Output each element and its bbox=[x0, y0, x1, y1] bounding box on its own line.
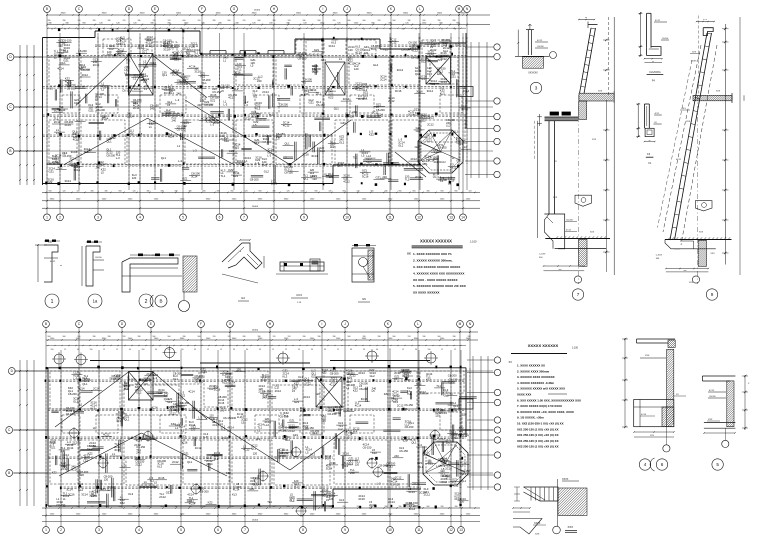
svg-text:8: 8 bbox=[302, 528, 304, 532]
svg-text:C6-150: C6-150 bbox=[391, 483, 400, 487]
svg-text:12: 12 bbox=[103, 349, 105, 351]
svg-text:LL2: LL2 bbox=[179, 53, 184, 57]
svg-text:4C12: 4C12 bbox=[676, 159, 682, 161]
svg-text:2C12: 2C12 bbox=[177, 82, 184, 86]
svg-text:F: F bbox=[201, 7, 203, 11]
svg-text:C8-200: C8-200 bbox=[127, 377, 136, 381]
svg-text:4C12: 4C12 bbox=[445, 476, 452, 480]
svg-text:L1: L1 bbox=[440, 179, 443, 183]
column sections top plan bbox=[58, 28, 60, 31]
svg-text:L5: L5 bbox=[250, 64, 253, 68]
svg-text:TL1: TL1 bbox=[431, 82, 436, 86]
svg-text:2C14: 2C14 bbox=[127, 115, 134, 119]
svg-text:4C14: 4C14 bbox=[168, 135, 175, 139]
svg-text:11: 11 bbox=[417, 528, 421, 532]
svg-text:C8-200: C8-200 bbox=[376, 108, 385, 112]
svg-text:330: 330 bbox=[343, 506, 346, 508]
svg-text:4C14: 4C14 bbox=[78, 387, 85, 391]
svg-text:90: 90 bbox=[220, 28, 222, 30]
svg-text:TL1: TL1 bbox=[290, 499, 295, 503]
svg-text:3C16: 3C16 bbox=[358, 497, 365, 501]
svg-text:LL2: LL2 bbox=[446, 124, 451, 128]
svg-text:C8-200: C8-200 bbox=[78, 49, 87, 53]
svg-text:TL1: TL1 bbox=[126, 58, 131, 62]
detail 1 corbel section bbox=[35, 240, 62, 283]
svg-text:3C14: 3C14 bbox=[303, 395, 310, 399]
svg-text:2C14: 2C14 bbox=[189, 423, 196, 427]
svg-text:XX2 250-120 (1 XX) +XX (X) XX: XX2 250-120 (1 XX) +XX (X) XX bbox=[517, 445, 559, 449]
svg-text:KL3: KL3 bbox=[232, 492, 237, 496]
svg-text:120: 120 bbox=[321, 419, 326, 423]
svg-text:TL1: TL1 bbox=[149, 479, 154, 483]
svg-text:3C16: 3C16 bbox=[181, 440, 188, 444]
svg-text:2C12: 2C12 bbox=[430, 48, 437, 52]
svg-text:QL1: QL1 bbox=[162, 73, 168, 77]
stair X brace 3 bbox=[426, 57, 451, 85]
svg-text:900: 900 bbox=[427, 506, 430, 508]
svg-text:4C12: 4C12 bbox=[441, 41, 448, 45]
svg-text:3C14: 3C14 bbox=[89, 494, 96, 498]
svg-text:2C12: 2C12 bbox=[172, 73, 179, 77]
svg-text:900: 900 bbox=[258, 20, 261, 22]
svg-text:L1: L1 bbox=[135, 388, 138, 392]
svg-text:4C12: 4C12 bbox=[65, 79, 72, 83]
svg-text:3C14: 3C14 bbox=[133, 106, 140, 110]
svg-text:GZ1: GZ1 bbox=[120, 41, 126, 45]
svg-text:XXXX: XXXX bbox=[534, 522, 541, 525]
svg-text:120: 120 bbox=[469, 190, 472, 192]
svg-text:XXXXX XXXXXX: XXXXX XXXXXX bbox=[420, 239, 452, 244]
svg-text:120: 120 bbox=[191, 407, 196, 411]
svg-text:4C12: 4C12 bbox=[537, 40, 543, 42]
svg-text:4C14: 4C14 bbox=[408, 490, 415, 494]
svg-text:XXX: XXX bbox=[645, 355, 650, 357]
svg-text:L5: L5 bbox=[54, 56, 57, 60]
svg-text:240: 240 bbox=[304, 92, 309, 96]
section 9 footing hatch bbox=[698, 240, 706, 266]
svg-text:4C14: 4C14 bbox=[57, 66, 64, 70]
svg-text:L-3: L-3 bbox=[255, 161, 259, 165]
svg-text:GZ1: GZ1 bbox=[341, 121, 347, 125]
svg-text:QL1: QL1 bbox=[354, 85, 360, 89]
svg-text:QL1: QL1 bbox=[461, 472, 467, 476]
svg-text:13: 13 bbox=[459, 528, 463, 532]
svg-text:7: 7 bbox=[244, 528, 246, 532]
detail 3 leader circle bbox=[550, 52, 557, 59]
svg-text:4C12: 4C12 bbox=[195, 446, 202, 450]
svg-text:C8-200: C8-200 bbox=[662, 38, 668, 40]
svg-text:GZ1: GZ1 bbox=[293, 433, 299, 437]
svg-text:L-3: L-3 bbox=[294, 384, 298, 388]
detail CC3 beam plan bbox=[276, 259, 328, 304]
svg-text:QL1: QL1 bbox=[285, 141, 291, 145]
svg-text:GZ1: GZ1 bbox=[50, 446, 56, 450]
svg-text:330: 330 bbox=[441, 506, 444, 508]
svg-text:XX: XX bbox=[509, 360, 513, 364]
svg-text:3. XXXXXX XXXX XXXXXXX: 3. XXXXXX XXXX XXXXXXX bbox=[517, 375, 555, 379]
svg-text:GZ1: GZ1 bbox=[309, 101, 315, 105]
svg-text:C8-200: C8-200 bbox=[96, 108, 105, 112]
svg-text:L-3: L-3 bbox=[346, 435, 350, 439]
svg-text:XXX: XXX bbox=[598, 91, 603, 93]
svg-text:L1: L1 bbox=[144, 480, 147, 484]
svg-text:90: 90 bbox=[64, 28, 66, 30]
bottom plan left axis bubbles bbox=[8, 368, 15, 375]
annotation text clusters top plan bbox=[47, 35, 472, 185]
left axis bubbles and lines bbox=[7, 54, 14, 61]
svg-text:GZ1: GZ1 bbox=[182, 177, 188, 181]
svg-text:90: 90 bbox=[129, 28, 131, 30]
svg-text:C6-150: C6-150 bbox=[363, 446, 372, 450]
svg-text:2C12: 2C12 bbox=[146, 43, 153, 47]
svg-text:2C14: 2C14 bbox=[222, 436, 229, 440]
svg-text:330: 330 bbox=[408, 20, 411, 22]
svg-text:L-3: L-3 bbox=[223, 103, 227, 107]
svg-text:GZ1: GZ1 bbox=[347, 376, 353, 380]
svg-text:7: 7 bbox=[577, 292, 580, 297]
svg-text:QL1: QL1 bbox=[187, 460, 193, 464]
svg-text:L5: L5 bbox=[136, 456, 139, 460]
svg-text:3300: 3300 bbox=[140, 13, 146, 15]
svg-text:L1: L1 bbox=[175, 426, 178, 430]
svg-text:12: 12 bbox=[207, 349, 209, 351]
svg-text:LL2: LL2 bbox=[237, 415, 242, 419]
svg-text:4C14: 4C14 bbox=[462, 107, 469, 111]
svg-text:4C14: 4C14 bbox=[641, 414, 647, 416]
svg-text:L1: L1 bbox=[257, 428, 260, 432]
svg-text:1: 1 bbox=[51, 299, 54, 305]
svg-text:33: 33 bbox=[324, 349, 326, 351]
svg-text:120: 120 bbox=[378, 20, 381, 22]
svg-text:2C12: 2C12 bbox=[186, 54, 193, 58]
svg-text:L5: L5 bbox=[70, 159, 73, 163]
svg-text:9: 9 bbox=[344, 528, 346, 532]
svg-text:4C12: 4C12 bbox=[419, 390, 426, 394]
svg-text:330: 330 bbox=[161, 190, 164, 192]
stair pit plan detail bbox=[512, 478, 587, 536]
svg-text:330: 330 bbox=[333, 336, 336, 338]
svg-text:12: 12 bbox=[454, 349, 456, 351]
section 9 footing boot bbox=[665, 240, 680, 249]
svg-text:330: 330 bbox=[385, 190, 388, 192]
svg-text:2C14: 2C14 bbox=[440, 411, 447, 415]
svg-text:330: 330 bbox=[243, 336, 246, 338]
svg-text:4C14: 4C14 bbox=[188, 390, 195, 394]
svg-text:120: 120 bbox=[446, 441, 451, 445]
detail 5 wall section bbox=[702, 375, 750, 434]
detail 1a section bbox=[82, 241, 104, 287]
detail G3 diagonal bracket bbox=[222, 239, 264, 301]
bottom building outline bbox=[48, 367, 466, 369]
svg-text:330: 330 bbox=[138, 336, 141, 338]
svg-text:3C14: 3C14 bbox=[250, 482, 257, 486]
svg-text:7: 7 bbox=[243, 216, 245, 220]
svg-text:120: 120 bbox=[329, 497, 334, 501]
roof ridge diagonals bbox=[76, 56, 129, 106]
svg-text:GZ1: GZ1 bbox=[376, 175, 382, 179]
svg-text:GZ1: GZ1 bbox=[210, 99, 216, 103]
svg-text:C8-200: C8-200 bbox=[279, 103, 288, 107]
svg-text:240: 240 bbox=[150, 106, 155, 110]
svg-text:330: 330 bbox=[453, 336, 456, 338]
svg-text:90: 90 bbox=[129, 349, 131, 351]
svg-text:E: E bbox=[154, 7, 156, 11]
section 9 vertical reference lines bbox=[697, 95, 699, 284]
svg-text:QL1: QL1 bbox=[418, 465, 424, 469]
svg-text:3: 3 bbox=[535, 86, 538, 91]
svg-text:E: E bbox=[150, 322, 152, 326]
section 7 landing left edge verticals bbox=[537, 121, 539, 238]
svg-text:3C16: 3C16 bbox=[163, 48, 170, 52]
svg-text:900: 900 bbox=[63, 336, 66, 338]
svg-text:2. XXXXX XXXXXX 300mm,: 2. XXXXX XXXXXX 300mm, bbox=[413, 259, 453, 263]
svg-text:GZ1: GZ1 bbox=[183, 452, 189, 456]
svg-text:150: 150 bbox=[142, 28, 145, 30]
svg-text:3C16: 3C16 bbox=[416, 89, 423, 93]
svg-text:L1: L1 bbox=[339, 57, 342, 61]
svg-text:LL2: LL2 bbox=[258, 74, 263, 78]
svg-text:90: 90 bbox=[415, 28, 417, 30]
svg-text:240: 240 bbox=[197, 103, 202, 107]
svg-text:900: 900 bbox=[48, 336, 51, 338]
svg-text:6: 6 bbox=[219, 216, 221, 220]
svg-text:GZ1: GZ1 bbox=[449, 381, 455, 385]
svg-text:3C16: 3C16 bbox=[362, 174, 369, 178]
svg-text:33: 33 bbox=[311, 349, 313, 351]
svg-text:330: 330 bbox=[217, 190, 220, 192]
svg-text:C6-150: C6-150 bbox=[284, 171, 293, 175]
svg-text:900: 900 bbox=[399, 190, 402, 192]
svg-text:KZ2: KZ2 bbox=[208, 501, 213, 505]
svg-text:KL3: KL3 bbox=[348, 462, 353, 466]
svg-text:2C14: 2C14 bbox=[419, 490, 426, 494]
svg-text:B: B bbox=[9, 149, 11, 153]
svg-text:10: 10 bbox=[388, 528, 392, 532]
svg-text:L5: L5 bbox=[394, 377, 397, 381]
svg-text:330: 330 bbox=[423, 336, 426, 338]
stair detail leader circle bbox=[553, 526, 561, 534]
svg-text:GL2: GL2 bbox=[421, 60, 427, 64]
svg-text:3300: 3300 bbox=[437, 13, 443, 15]
svg-text:GL2: GL2 bbox=[427, 41, 433, 45]
detail 3 parapet section bbox=[515, 24, 557, 75]
svg-text:11: 11 bbox=[388, 216, 392, 220]
svg-text:L-3: L-3 bbox=[267, 153, 271, 157]
svg-text:L5: L5 bbox=[282, 454, 285, 458]
svg-text:3: 3 bbox=[97, 216, 99, 220]
detail 3 footing hatch bbox=[523, 57, 544, 68]
svg-text:2C14 L=3300: 2C14 L=3300 bbox=[143, 255, 157, 257]
svg-text:2C14: 2C14 bbox=[169, 408, 176, 412]
svg-text:330: 330 bbox=[93, 336, 96, 338]
svg-text:120: 120 bbox=[333, 20, 336, 22]
svg-text:330: 330 bbox=[453, 20, 456, 22]
svg-text:3C16: 3C16 bbox=[71, 150, 78, 154]
svg-text:KL3: KL3 bbox=[48, 86, 53, 90]
svg-text:12: 12 bbox=[116, 349, 118, 351]
svg-text:2C14: 2C14 bbox=[392, 393, 399, 397]
svg-text:XXX: XXX bbox=[689, 282, 694, 284]
bottom interior walls dashed bbox=[48, 379, 466, 381]
svg-text:KL3: KL3 bbox=[343, 464, 348, 468]
top dimension lines bbox=[47, 14, 490, 16]
svg-text:L1: L1 bbox=[223, 59, 226, 63]
svg-text:3C16: 3C16 bbox=[59, 54, 66, 58]
svg-text:GZ1: GZ1 bbox=[49, 170, 55, 174]
svg-text:120: 120 bbox=[236, 485, 241, 489]
svg-text:120: 120 bbox=[243, 20, 246, 22]
svg-text:900: 900 bbox=[438, 336, 441, 338]
svg-text:3300: 3300 bbox=[367, 13, 373, 15]
svg-text:4C12: 4C12 bbox=[228, 96, 235, 100]
svg-text:33: 33 bbox=[194, 349, 196, 351]
svg-text:GL2: GL2 bbox=[416, 129, 422, 133]
svg-text:XXX: XXX bbox=[692, 52, 697, 54]
svg-text:3300: 3300 bbox=[252, 13, 258, 15]
svg-text:330: 330 bbox=[385, 506, 388, 508]
svg-text:240: 240 bbox=[163, 44, 168, 48]
svg-text:120: 120 bbox=[63, 190, 66, 192]
svg-text:2C14: 2C14 bbox=[93, 387, 100, 391]
svg-text:L-3: L-3 bbox=[116, 156, 120, 160]
svg-text:2C14: 2C14 bbox=[462, 434, 469, 438]
svg-text:QL1: QL1 bbox=[251, 447, 257, 451]
svg-text:L5: L5 bbox=[344, 430, 347, 434]
svg-text:KL3: KL3 bbox=[262, 163, 267, 167]
svg-text:3C16: 3C16 bbox=[302, 152, 309, 156]
svg-text:2C14: 2C14 bbox=[137, 46, 144, 50]
svg-text:240: 240 bbox=[350, 471, 355, 475]
svg-text:XXXXXX: XXXXXX bbox=[528, 72, 538, 75]
svg-text:240: 240 bbox=[369, 457, 374, 461]
svg-text:90: 90 bbox=[246, 349, 248, 351]
svg-text:LL2: LL2 bbox=[265, 423, 270, 427]
svg-text:C8-200: C8-200 bbox=[204, 103, 213, 107]
svg-text:14: 14 bbox=[461, 216, 465, 220]
svg-text:240: 240 bbox=[129, 132, 134, 136]
svg-text:330: 330 bbox=[258, 336, 261, 338]
svg-text:3C16: 3C16 bbox=[395, 89, 402, 93]
svg-text:120: 120 bbox=[288, 20, 291, 22]
section 7 footing hatch bbox=[579, 240, 587, 267]
svg-text:4C12: 4C12 bbox=[439, 437, 446, 441]
svg-text:900: 900 bbox=[119, 190, 122, 192]
svg-text:KZ2: KZ2 bbox=[353, 388, 358, 392]
svg-text:QL1: QL1 bbox=[453, 129, 459, 133]
svg-text:KL3: KL3 bbox=[256, 107, 261, 111]
svg-text:B: B bbox=[45, 322, 47, 326]
svg-text:4C12: 4C12 bbox=[655, 20, 661, 22]
section 7 bottom dims bbox=[544, 265, 585, 267]
section 9 leader circle bbox=[692, 276, 699, 283]
svg-text:L-3: L-3 bbox=[175, 98, 179, 102]
svg-text:120: 120 bbox=[355, 462, 360, 466]
svg-text:XX1 250-120 (1 XX) +XX (X) XX: XX1 250-120 (1 XX) +XX (X) XX bbox=[517, 433, 559, 437]
svg-text:150: 150 bbox=[168, 349, 171, 351]
svg-text:XXXXX XXXXXX: XXXXX XXXXXX bbox=[528, 343, 559, 348]
svg-text:TL1: TL1 bbox=[448, 392, 453, 396]
svg-text:QL1: QL1 bbox=[415, 72, 421, 76]
svg-text:2C14: 2C14 bbox=[345, 408, 352, 412]
svg-text:QL1: QL1 bbox=[411, 441, 417, 445]
svg-text:LL2: LL2 bbox=[214, 457, 219, 461]
svg-text:12: 12 bbox=[51, 28, 53, 30]
svg-text:3C14: 3C14 bbox=[358, 371, 365, 375]
svg-text:240: 240 bbox=[176, 91, 181, 95]
svg-text:4C12: 4C12 bbox=[397, 68, 404, 72]
svg-text:120: 120 bbox=[58, 44, 63, 48]
svg-text:L1: L1 bbox=[133, 76, 136, 80]
svg-text:3C14: 3C14 bbox=[229, 381, 236, 385]
svg-text:33: 33 bbox=[233, 349, 235, 351]
svg-text:120: 120 bbox=[273, 336, 276, 338]
svg-text:L5: L5 bbox=[372, 389, 375, 393]
svg-text:3300: 3300 bbox=[296, 13, 302, 15]
svg-text:GL2: GL2 bbox=[194, 54, 200, 58]
svg-text:3C14: 3C14 bbox=[427, 89, 434, 93]
svg-text:L1: L1 bbox=[79, 402, 82, 406]
svg-text:4C12: 4C12 bbox=[410, 157, 417, 161]
svg-text:4C12: 4C12 bbox=[73, 138, 80, 142]
svg-text:QL1: QL1 bbox=[107, 140, 113, 144]
svg-text:GZ1: GZ1 bbox=[416, 382, 422, 386]
svg-text:4C14: 4C14 bbox=[428, 159, 435, 163]
svg-text:G5: G5 bbox=[362, 297, 366, 301]
bottom plan right axis bubbles bbox=[494, 357, 500, 363]
svg-text:QL1: QL1 bbox=[303, 177, 309, 181]
svg-text:900: 900 bbox=[231, 190, 234, 192]
svg-text:L-3: L-3 bbox=[198, 416, 202, 420]
svg-text:1. XXXX XXXXXX XX: 1. XXXX XXXXXX XX bbox=[517, 364, 545, 368]
svg-text:TL1: TL1 bbox=[454, 436, 459, 440]
svg-text:2C12: 2C12 bbox=[427, 122, 434, 126]
svg-text:900: 900 bbox=[259, 190, 262, 192]
svg-text:12: 12 bbox=[64, 349, 66, 351]
svg-text:330: 330 bbox=[48, 20, 51, 22]
svg-text:3C14: 3C14 bbox=[311, 154, 318, 158]
svg-text:2C12: 2C12 bbox=[397, 403, 404, 407]
svg-text:4C12: 4C12 bbox=[452, 483, 459, 487]
svg-text:GZ1: GZ1 bbox=[451, 75, 457, 79]
svg-text:330: 330 bbox=[318, 336, 321, 338]
svg-text:C8-200: C8-200 bbox=[68, 392, 77, 396]
svg-text:33: 33 bbox=[259, 349, 261, 351]
svg-text:4C12: 4C12 bbox=[566, 230, 572, 232]
svg-text:QL1: QL1 bbox=[169, 91, 175, 95]
svg-text:4C12: 4C12 bbox=[50, 261, 56, 263]
svg-text:120: 120 bbox=[213, 336, 216, 338]
bottom plan vertical grid lines bbox=[45, 328, 47, 527]
svg-text:3C16: 3C16 bbox=[312, 70, 319, 74]
svg-text:XXX: XXX bbox=[686, 121, 691, 123]
svg-text:KL3: KL3 bbox=[427, 72, 432, 76]
svg-text:900: 900 bbox=[393, 336, 396, 338]
svg-text:LL2: LL2 bbox=[330, 145, 335, 149]
svg-text:12: 12 bbox=[220, 349, 222, 351]
svg-text:TL1: TL1 bbox=[405, 178, 410, 182]
detail 1a bubble bbox=[88, 294, 102, 308]
svg-text:GZ1: GZ1 bbox=[420, 118, 426, 122]
section 9 bottom dims bbox=[666, 268, 709, 270]
svg-text:3C14: 3C14 bbox=[358, 97, 365, 101]
svg-text:3: 3 bbox=[98, 528, 100, 532]
svg-text:L-3: L-3 bbox=[73, 377, 77, 381]
bottom floor plan bbox=[6, 321, 501, 534]
svg-text:900: 900 bbox=[318, 20, 321, 22]
svg-text:120: 120 bbox=[364, 51, 369, 55]
svg-text:KZ2: KZ2 bbox=[369, 132, 374, 136]
svg-text:150: 150 bbox=[428, 349, 431, 351]
